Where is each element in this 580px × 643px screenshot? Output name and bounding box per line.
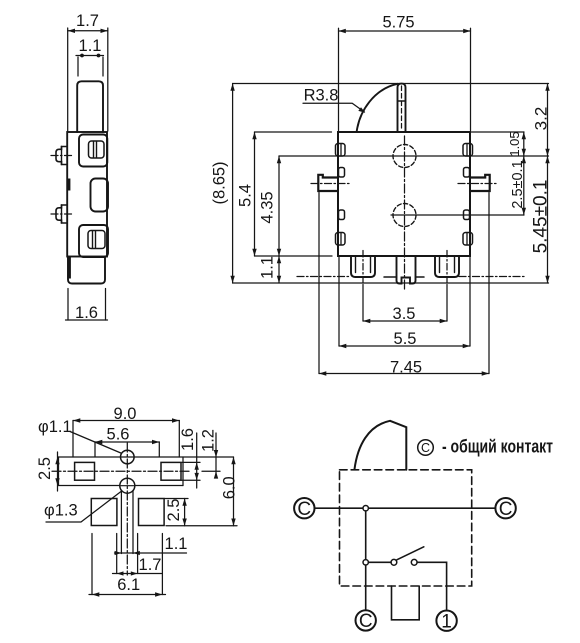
slot right line xyxy=(132,491,134,554)
dimension 1.6 extension right xyxy=(105,289,107,321)
dimension 6.0 line xyxy=(233,457,235,526)
extension line right of 5.75 xyxy=(470,28,472,130)
dimension 5.45±0.1 line xyxy=(547,156,549,283)
lower terminal inner lines xyxy=(92,231,94,248)
dimension 1.7 line xyxy=(68,30,108,32)
lower terminal (side view) outer xyxy=(79,225,108,257)
svg-text:5.75: 5.75 xyxy=(382,14,414,32)
svg-text:1.1: 1.1 xyxy=(79,37,102,55)
left bump C xyxy=(339,210,345,220)
bottom left pin centerline xyxy=(362,251,364,285)
extension lines of 9.0 xyxy=(72,421,74,458)
svg-text:R3.8: R3.8 xyxy=(304,87,339,105)
lever stem xyxy=(398,84,406,132)
lever symbol xyxy=(355,421,407,470)
pad row top line xyxy=(59,456,234,458)
dimension 1.7 (fp) line xyxy=(113,573,162,575)
svg-text:5.45±0.1: 5.45±0.1 xyxy=(531,180,552,254)
dimension 1.6 (fp) line xyxy=(196,433,198,488)
extension lines of 5.6 xyxy=(94,442,96,457)
dimension 7.45 extension lines xyxy=(318,193,320,374)
svg-text:1: 1 xyxy=(441,612,452,633)
lever stem centerline xyxy=(401,86,403,130)
bottom stub left of middle pin xyxy=(384,276,397,278)
bottom terminal 1 circle xyxy=(436,611,456,631)
upper terminal inner lines xyxy=(93,142,95,158)
left tab D xyxy=(336,233,346,246)
left bump B xyxy=(339,168,345,178)
lower hole (φ1.3) xyxy=(120,478,135,493)
svg-text:4.35: 4.35 xyxy=(259,191,277,223)
svg-text:3.5: 3.5 xyxy=(393,305,416,323)
bottom terminal C circle xyxy=(356,610,376,630)
bottom middle pin xyxy=(397,256,416,284)
centerline extension right xyxy=(202,470,220,472)
extension line left of 1.7 xyxy=(67,28,69,131)
svg-text:5.6: 5.6 xyxy=(107,426,130,444)
dashed switch box xyxy=(340,470,472,586)
svg-text:6.1: 6.1 xyxy=(117,576,140,594)
dimension 5.6 line xyxy=(95,441,159,443)
vertical centerline of body xyxy=(404,136,406,291)
seating dash-dot line right xyxy=(459,276,524,278)
dimension 1.6 line xyxy=(66,319,108,321)
dimension 2.5 (right) top extension xyxy=(165,498,188,500)
top hole (φ1.1) xyxy=(121,450,135,464)
dimension 1.1 line with dot ends xyxy=(76,55,104,57)
dimension 5.75 line xyxy=(339,30,471,32)
pad top extension right xyxy=(182,461,200,463)
svg-text:C: C xyxy=(421,441,430,455)
right side pin xyxy=(470,175,490,191)
svg-text:1.7: 1.7 xyxy=(139,556,162,574)
dimension 3.2 line xyxy=(547,84,549,157)
svg-text:2.5: 2.5 xyxy=(36,457,54,480)
φ1.1 leader line xyxy=(70,432,122,454)
right bump C xyxy=(464,210,470,220)
left side pin centerline xyxy=(311,183,350,185)
left terminal C circle xyxy=(294,498,314,518)
junction node top xyxy=(363,506,368,511)
svg-text:1.05: 1.05 xyxy=(507,131,522,156)
lever blade (side profile) xyxy=(77,81,103,132)
svg-text:2.5±0.1: 2.5±0.1 xyxy=(510,160,526,208)
lower terminal inner fold xyxy=(88,231,105,249)
dimension 5.5 line xyxy=(339,345,470,347)
right side pin centerline xyxy=(458,183,497,185)
pads bottom extension right xyxy=(166,525,237,527)
dimension 3.5 line xyxy=(363,320,447,322)
svg-text:C: C xyxy=(359,611,373,632)
dimension 7.45 line xyxy=(319,373,489,375)
lever top extension line xyxy=(233,83,549,85)
bottom right pin xyxy=(435,256,459,277)
dimension 1.2 (fp) line xyxy=(215,433,217,474)
extension line right of 1.7 xyxy=(107,28,109,131)
svg-text:6.0: 6.0 xyxy=(221,476,239,499)
bottom dim extension verticals xyxy=(91,534,93,595)
R3.8 leader line xyxy=(303,103,364,112)
svg-text:1.7: 1.7 xyxy=(76,12,99,30)
left pad xyxy=(75,462,95,480)
body bottom extension to left xyxy=(255,255,333,257)
svg-text:5.4: 5.4 xyxy=(237,184,255,207)
switch body (side view) xyxy=(67,132,107,257)
dimension 9.0 line xyxy=(73,420,179,422)
body top extension to right xyxy=(470,131,524,133)
svg-text:1.2: 1.2 xyxy=(200,429,218,452)
left tab A xyxy=(336,144,346,157)
pad bottom extension right xyxy=(182,479,200,481)
svg-text:2.5: 2.5 xyxy=(165,499,183,522)
junction node switch xyxy=(363,560,368,565)
dimension (8.65) line xyxy=(232,84,234,284)
svg-text:φ1.1: φ1.1 xyxy=(38,418,72,436)
wire from contact to terminal 1 xyxy=(417,562,447,610)
bottom left pad xyxy=(91,499,117,526)
slot left line xyxy=(120,491,122,554)
φ1.3 leader line xyxy=(46,492,121,523)
lower hole centerline xyxy=(391,214,524,216)
right terminal C circle xyxy=(495,498,515,518)
bottom right pad xyxy=(139,499,165,526)
left side pin xyxy=(318,175,338,191)
lower hole (dashed circle) xyxy=(393,204,416,227)
centerline of pin 2 xyxy=(51,213,74,215)
thick edge of bottom protrusion xyxy=(67,257,71,279)
svg-text:3.2: 3.2 xyxy=(532,107,551,131)
right tab D xyxy=(463,233,473,246)
extension line right of 1.1 xyxy=(102,57,104,76)
upper terminal inner fold xyxy=(89,141,105,158)
wire to switch contact xyxy=(369,561,392,563)
bottom stub right of middle pin xyxy=(416,276,425,278)
svg-text:1.1: 1.1 xyxy=(259,256,277,279)
right bump B xyxy=(464,168,470,178)
upper hole centerline xyxy=(279,155,549,157)
plunger rectangle xyxy=(392,586,420,620)
switch blade xyxy=(397,547,424,560)
svg-text:7.45: 7.45 xyxy=(390,359,422,377)
lever arc (actuator) xyxy=(357,84,398,132)
svg-text:φ1.3: φ1.3 xyxy=(44,502,78,520)
centerline of pin 1 xyxy=(51,155,74,157)
vertical centerline of footprint xyxy=(126,443,128,575)
pad row left edge xyxy=(58,457,60,486)
left pin 1 (side view) xyxy=(56,147,67,165)
pad row bottom line xyxy=(59,485,184,487)
right pad xyxy=(161,462,181,480)
vertical wire xyxy=(365,511,367,610)
dimension 1.6 extension left xyxy=(67,289,69,321)
dimension 1.1 line (left bottom) xyxy=(278,256,280,283)
dimension 2.5 (right) line xyxy=(184,499,186,526)
main horizontal wire xyxy=(315,507,496,509)
thick latch bar on left edge xyxy=(67,179,71,191)
dimension 1.05 / 2.5 line xyxy=(523,132,525,215)
common contact legend symbol xyxy=(418,440,434,456)
bottom protrusion (side view) xyxy=(68,257,105,284)
lever blade edge line xyxy=(398,100,406,102)
dimension 5.5 extension lines xyxy=(338,258,340,347)
pad row right edge xyxy=(182,457,184,486)
svg-text:C: C xyxy=(297,499,311,520)
extension line left of 1.1 xyxy=(77,57,79,76)
svg-text:1.1: 1.1 xyxy=(165,535,188,553)
right boss (side view) xyxy=(91,179,109,212)
svg-text:5.5: 5.5 xyxy=(394,330,417,348)
svg-text:C: C xyxy=(499,499,513,520)
body top extension to left xyxy=(255,131,332,133)
left pin 2 (side view) xyxy=(56,205,67,223)
svg-text:1.6: 1.6 xyxy=(75,304,98,322)
svg-text:1.6: 1.6 xyxy=(179,428,197,451)
switch body (front view) xyxy=(338,132,470,256)
dimension 4.35 line xyxy=(278,156,280,256)
svg-text:- общий контакт: - общий контакт xyxy=(442,435,553,456)
dimension 1.1 (fp) line xyxy=(115,552,187,554)
right tab A xyxy=(463,144,473,157)
pad row centerline xyxy=(52,470,190,472)
switch contact right xyxy=(411,559,417,565)
extension line left of 5.75 xyxy=(338,28,340,130)
svg-text:(8.65): (8.65) xyxy=(211,161,229,204)
bottom extension line (seating) xyxy=(233,282,549,284)
bottom left pin xyxy=(351,256,375,277)
upper hole (dashed circle) xyxy=(393,145,416,168)
dimension 6.1 line xyxy=(89,594,166,596)
upper terminal (side view) outer xyxy=(79,135,107,167)
dimension 2.5 (left) line xyxy=(57,452,59,491)
bottom right pin centerline xyxy=(446,251,448,285)
seating dash-dot line left xyxy=(297,276,351,278)
dimension 5.4 line xyxy=(254,132,256,256)
switch contact left xyxy=(391,559,397,565)
